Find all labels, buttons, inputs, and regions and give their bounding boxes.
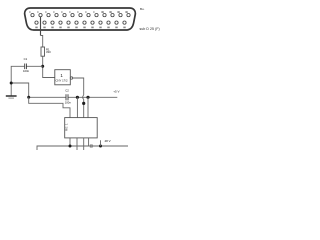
connector bottom row pins 14-25 [35, 21, 126, 24]
wire +5V bus [29, 96, 118, 98]
relay bottom pins [70, 138, 89, 150]
node right [99, 145, 102, 148]
wire staircase from node A to relay pin 1 [29, 97, 70, 119]
node D [82, 102, 85, 105]
svg-text:100n: 100n [23, 69, 30, 73]
svg-text:48 V: 48 V [105, 139, 111, 143]
svg-text:Bu.: Bu. [140, 7, 145, 11]
node at relay pin [69, 145, 72, 148]
capacitor C2 100n [66, 94, 68, 100]
wire stub above right node [100, 140, 102, 146]
inversion bubble [70, 77, 72, 79]
node C [86, 96, 89, 99]
wire resistor to IC input [43, 56, 55, 77]
wire C1 left to ground and to bus [11, 66, 29, 97]
wire U1 output down with hop over bus [73, 78, 84, 120]
ground [6, 95, 17, 97]
node junction at C1 [41, 65, 44, 68]
pin numbers 14-25 [35, 27, 125, 29]
svg-text:+5 V: +5 V [113, 89, 119, 93]
terminal mark [90, 145, 92, 147]
svg-text:RE 1: RE 1 [65, 123, 69, 131]
connector top row pins 1-13 [31, 13, 130, 16]
svg-text:CNY 17/2: CNY 17/2 [55, 78, 68, 82]
node at left [10, 82, 13, 85]
relay RE1 [65, 118, 98, 138]
capacitor C1 100n [25, 64, 27, 70]
svg-text:100n: 100n [65, 100, 72, 104]
node A [27, 96, 30, 99]
svg-text:sub D 25 (F): sub D 25 (F) [140, 27, 160, 31]
wire node C down to relay [87, 97, 89, 119]
op-amp gate U1 inverter box [55, 70, 71, 85]
svg-text:C1: C1 [24, 57, 28, 61]
wire node B down to relay [76, 97, 78, 119]
connector K1 sub-D 25 shell [25, 8, 136, 30]
wire pin2 to resistor (jog) [40, 17, 42, 36]
wire bottom rail [37, 146, 128, 150]
pin numbers 1-13 [29, 11, 127, 13]
node B [76, 96, 79, 99]
resistor R1 330 [41, 47, 45, 56]
svg-text:C2: C2 [65, 88, 69, 92]
wire C1 right [26, 65, 42, 67]
svg-text:330: 330 [46, 50, 51, 54]
